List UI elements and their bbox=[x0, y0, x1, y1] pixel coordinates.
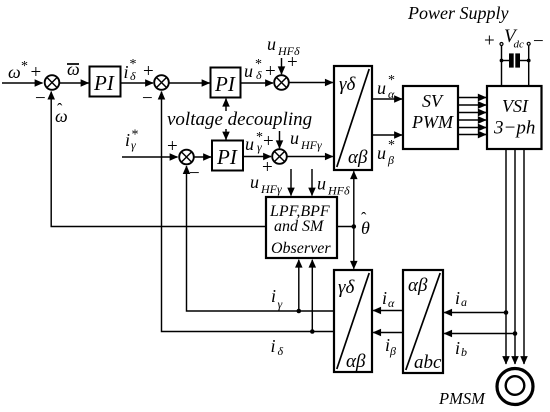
svg-text:abc: abc bbox=[414, 352, 442, 373]
wire i_beta bbox=[373, 332, 403, 334]
wire u_alpha* to SVPWM bbox=[372, 98, 402, 100]
svg-text:γ: γ bbox=[131, 138, 136, 152]
svg-text:δ: δ bbox=[130, 69, 136, 83]
svg-text:+: + bbox=[143, 61, 154, 82]
summing junction J2 bbox=[142, 61, 169, 109]
svg-text:δ: δ bbox=[256, 68, 262, 82]
wire VSI phase a bbox=[505, 149, 507, 364]
wire i_gamma feedback bbox=[187, 166, 335, 311]
transform block alpha-beta to abc bbox=[403, 270, 443, 373]
svg-text:PMSM: PMSM bbox=[438, 389, 486, 408]
wire u_beta* to SVPWM bbox=[372, 134, 402, 136]
svg-text:u: u bbox=[250, 172, 259, 192]
svg-text:ω: ω bbox=[8, 62, 21, 82]
svg-text:γ: γ bbox=[257, 140, 262, 154]
svg-text:αβ: αβ bbox=[348, 147, 368, 168]
svg-text:PI: PI bbox=[216, 145, 238, 169]
svg-text:PI: PI bbox=[93, 71, 115, 95]
wire PWM gate signals (6 lines) bbox=[458, 98, 486, 135]
wire i_a bbox=[444, 312, 506, 314]
node theta junction dot bbox=[352, 224, 357, 229]
svg-text:δ: δ bbox=[278, 344, 284, 358]
svg-text:SV: SV bbox=[422, 91, 444, 111]
svg-text:PI: PI bbox=[214, 72, 236, 96]
svg-text:*: * bbox=[388, 138, 395, 153]
wire VSI phase c bbox=[523, 149, 525, 364]
svg-text:Observer: Observer bbox=[271, 240, 331, 257]
svg-text:+: + bbox=[484, 31, 495, 52]
node u_HFgamma label right bbox=[290, 128, 322, 152]
wire decoupling to PI3 bbox=[225, 129, 227, 140]
svg-text:i: i bbox=[455, 288, 460, 308]
node omega* label bbox=[8, 59, 41, 83]
svg-text:α: α bbox=[388, 296, 395, 310]
node u_beta* label bbox=[377, 138, 395, 167]
svg-text:u: u bbox=[317, 174, 326, 194]
node i_delta* label bbox=[124, 57, 137, 83]
wire theta to top transform block bbox=[353, 171, 355, 226]
wire PI1 to J2 bbox=[121, 82, 154, 84]
svg-text:αβ: αβ bbox=[346, 351, 366, 372]
wire i_alpha bbox=[373, 310, 403, 312]
svg-text:u: u bbox=[244, 61, 253, 81]
svg-text:−: − bbox=[533, 31, 544, 52]
node i_alpha label bbox=[382, 288, 395, 310]
node u_HFgamma label lower bbox=[250, 172, 282, 196]
node u_HFdelta label top bbox=[267, 34, 300, 58]
wire J4 to PI3 bbox=[194, 156, 211, 158]
block LPF BPF and SM Observer bbox=[266, 197, 337, 258]
svg-text:+: + bbox=[167, 136, 178, 157]
node omega-hat label bbox=[55, 101, 68, 126]
block VSI 3-ph bbox=[487, 86, 542, 149]
node i_b tap dot bbox=[513, 331, 518, 336]
node i_a tap dot bbox=[504, 310, 509, 315]
PI controller PI2 bbox=[211, 68, 241, 98]
svg-text:u: u bbox=[267, 34, 276, 54]
node u_HFdelta label lower bbox=[317, 174, 350, 198]
svg-text:i: i bbox=[271, 286, 276, 306]
wire i_gamma tap to observer bbox=[298, 260, 300, 311]
svg-text:Power Supply: Power Supply bbox=[407, 3, 509, 23]
svg-text:u: u bbox=[245, 134, 254, 154]
summing junction J4 bbox=[167, 136, 200, 184]
summing junction J1 bbox=[35, 75, 59, 109]
svg-text:ω: ω bbox=[67, 59, 80, 79]
wire decoupling to PI2 bbox=[225, 99, 227, 111]
svg-text:u: u bbox=[377, 143, 386, 163]
wire J1 to PI1 bbox=[59, 82, 88, 84]
svg-text:b: b bbox=[461, 345, 467, 359]
svg-text:−: − bbox=[35, 88, 46, 109]
svg-text:voltage decoupling: voltage decoupling bbox=[167, 109, 312, 130]
svg-text:i: i bbox=[271, 336, 276, 356]
svg-text:VSI: VSI bbox=[502, 96, 529, 116]
node i_a label bbox=[455, 288, 467, 309]
node i_delta label bbox=[271, 336, 284, 358]
svg-text:αβ: αβ bbox=[408, 275, 428, 296]
wire i_delta tap to observer bbox=[311, 260, 313, 332]
capacitor C1 bbox=[500, 53, 531, 67]
node i_gamma label bbox=[271, 286, 283, 311]
transform block gamma-delta to alpha-beta (top) bbox=[334, 66, 372, 170]
wire observer theta output bbox=[337, 226, 354, 228]
node i_gamma tap dot bbox=[297, 309, 302, 314]
svg-text:and SM: and SM bbox=[274, 218, 325, 235]
svg-text:*: * bbox=[388, 73, 395, 88]
wire u_HFdelta injection into J3 bbox=[282, 52, 298, 74]
wire i_gamma* input bbox=[122, 156, 178, 158]
node i_b label bbox=[455, 338, 467, 359]
svg-text:*: * bbox=[21, 59, 28, 74]
svg-text:ˆ: ˆ bbox=[361, 210, 367, 227]
transform block gamma-delta to alpha-beta (bottom) bbox=[334, 270, 372, 372]
svg-text:β: β bbox=[387, 153, 394, 167]
node i_delta tap dot bbox=[310, 329, 315, 334]
wire dc+ to VSI bbox=[501, 46, 503, 86]
PI controller PI3 bbox=[212, 141, 243, 171]
wire dc- to VSI bbox=[528, 46, 530, 86]
svg-text:−: − bbox=[189, 163, 200, 184]
node omega-bar label bbox=[67, 59, 80, 79]
node u_gamma* label bbox=[245, 130, 274, 154]
wire i_b bbox=[444, 333, 515, 335]
svg-text:HFγ: HFγ bbox=[300, 138, 322, 152]
node u_alpha* label bbox=[377, 73, 395, 101]
svg-text:+: + bbox=[287, 52, 298, 73]
svg-text:ˆ: ˆ bbox=[57, 101, 63, 118]
svg-text:i: i bbox=[125, 130, 130, 150]
wire VSI phase b bbox=[514, 149, 516, 364]
svg-text:γ: γ bbox=[278, 297, 283, 311]
block SV PWM bbox=[403, 86, 458, 149]
wire PI3 to J5 bbox=[243, 156, 271, 158]
node dc+ terminal bbox=[500, 43, 503, 46]
wire u_HFdelta to observer bbox=[311, 169, 313, 196]
svg-text:u: u bbox=[377, 78, 386, 98]
wire J5 to transform block bbox=[287, 156, 333, 158]
svg-text:+: + bbox=[262, 157, 273, 178]
svg-text:HFδ: HFδ bbox=[327, 184, 350, 198]
wire J3 to transform block bbox=[289, 82, 333, 84]
svg-text:PWM: PWM bbox=[411, 112, 454, 132]
summing junction J5 bbox=[262, 149, 287, 178]
wire omega* input bbox=[2, 82, 43, 84]
motor PMSM bbox=[497, 369, 533, 405]
wire omega-hat feedback bbox=[51, 92, 266, 227]
node u_delta* label bbox=[244, 57, 276, 82]
wire u_HFgamma to observer bbox=[290, 169, 292, 196]
svg-text:HFγ: HFγ bbox=[260, 182, 282, 196]
svg-text:+: + bbox=[263, 131, 274, 152]
summing junction J3 bbox=[274, 75, 289, 90]
svg-text:dc: dc bbox=[514, 39, 525, 51]
svg-text:i: i bbox=[382, 288, 387, 308]
wire theta to bottom transform block bbox=[353, 227, 355, 269]
svg-text:β: β bbox=[389, 344, 396, 358]
node i_beta label bbox=[385, 335, 396, 358]
svg-text:i: i bbox=[124, 62, 129, 82]
node dc- terminal bbox=[527, 42, 530, 45]
wire i_delta feedback bbox=[162, 92, 335, 332]
svg-text:γδ: γδ bbox=[338, 277, 355, 298]
svg-text:γδ: γδ bbox=[339, 74, 356, 95]
svg-text:a: a bbox=[461, 295, 467, 309]
svg-text:+: + bbox=[31, 62, 42, 83]
wire J2 to PI2 bbox=[169, 82, 210, 84]
wire u_HFgamma injection into J5 bbox=[279, 131, 281, 148]
node i_gamma* label bbox=[125, 128, 139, 153]
PI controller PI1 bbox=[90, 67, 121, 97]
node Vdc label bbox=[484, 26, 544, 52]
svg-text:−: − bbox=[142, 88, 153, 109]
wire PI2 to J3 bbox=[241, 82, 274, 84]
svg-text:3−ph: 3−ph bbox=[493, 118, 535, 139]
node theta-hat label bbox=[361, 210, 370, 238]
svg-text:i: i bbox=[455, 338, 460, 358]
svg-text:u: u bbox=[290, 128, 299, 148]
